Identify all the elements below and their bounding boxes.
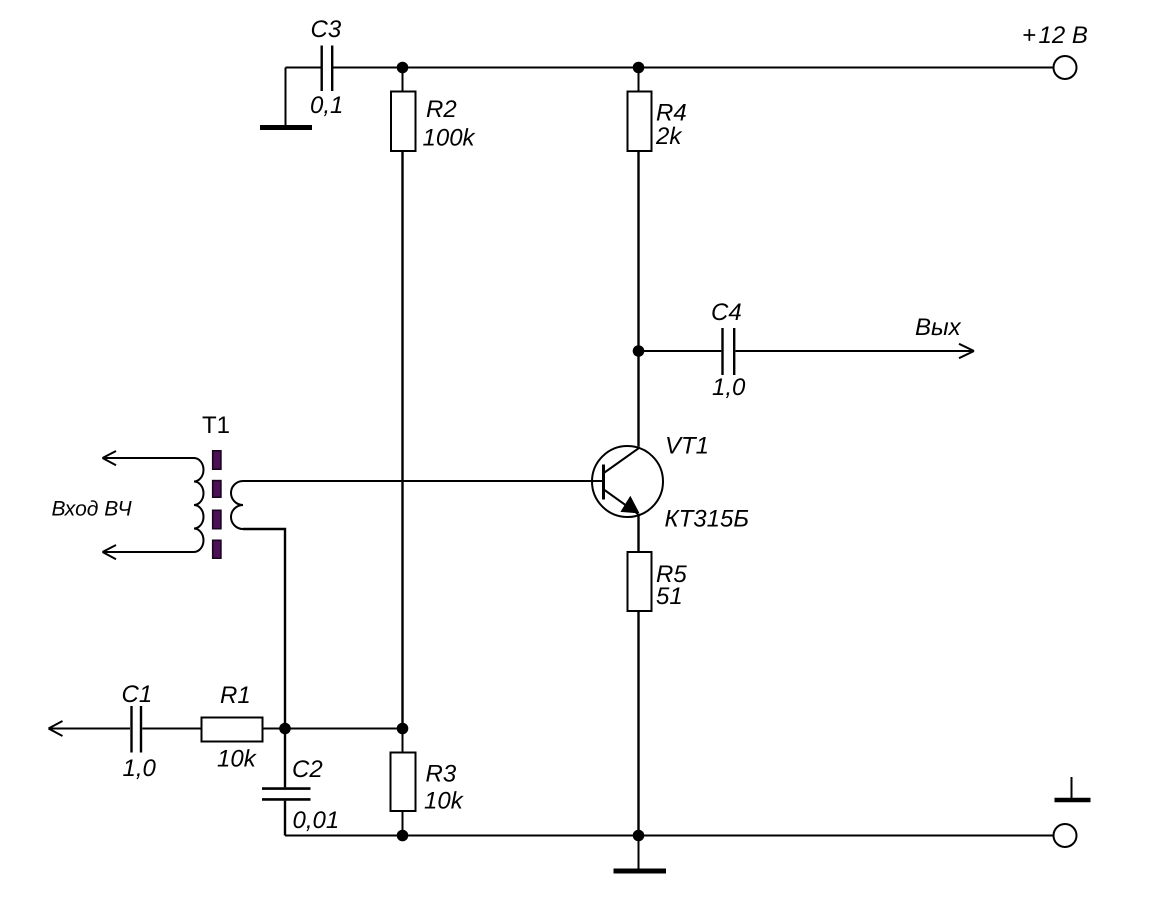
svg-text:Вых: Вых — [915, 314, 962, 341]
svg-text:C4: C4 — [711, 299, 742, 326]
svg-text:VT1: VT1 — [665, 433, 709, 460]
svg-text:Вход ВЧ: Вход ВЧ — [52, 498, 133, 521]
svg-text:R3: R3 — [426, 761, 457, 788]
svg-text:0,01: 0,01 — [293, 807, 340, 834]
svg-text:КТ315Б: КТ315Б — [665, 506, 749, 533]
svg-text:C1: C1 — [122, 681, 153, 708]
svg-text:1,0: 1,0 — [123, 755, 157, 782]
svg-text:T1: T1 — [202, 412, 230, 439]
svg-text:10k: 10k — [217, 746, 258, 773]
svg-text:C2: C2 — [292, 756, 323, 783]
svg-text:2k: 2k — [655, 123, 683, 150]
svg-text:C3: C3 — [311, 16, 342, 43]
svg-text:51: 51 — [656, 583, 683, 610]
svg-text:R1: R1 — [220, 682, 251, 709]
svg-text:100k: 100k — [423, 125, 477, 152]
svg-text:R2: R2 — [426, 96, 457, 123]
svg-text:0,1: 0,1 — [310, 92, 343, 119]
svg-text:1,0: 1,0 — [712, 374, 746, 401]
svg-text:+12 В: +12 В — [1022, 22, 1088, 49]
svg-text:10k: 10k — [424, 788, 465, 815]
